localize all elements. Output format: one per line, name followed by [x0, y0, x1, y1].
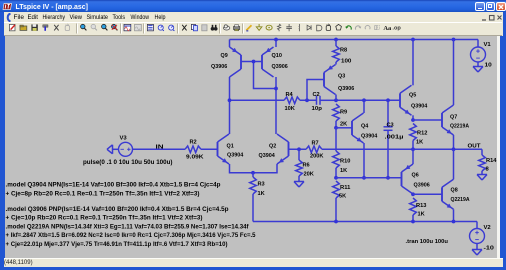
svg-text:R14: R14	[486, 158, 497, 164]
svg-text:10p: 10p	[312, 106, 323, 112]
svg-text:R12: R12	[417, 131, 427, 137]
svg-text:Q3906: Q3906	[211, 64, 228, 70]
svg-text:1K: 1K	[416, 140, 424, 146]
svg-text:Q8: Q8	[451, 188, 459, 194]
svg-text:Q5: Q5	[409, 93, 417, 99]
svg-text:R13: R13	[416, 203, 427, 209]
svg-text:pulse(0 .1 0 10u 10u 50u 100u): pulse(0 .1 0 10u 10u 50u 100u)	[83, 159, 173, 166]
svg-text:+ Cje=10p Rb=20 Rc=0.1 Re=0.1: + Cje=10p Rb=20 Rc=0.1 Re=0.1 Tr=250n Tf…	[6, 216, 203, 222]
svg-text:20K: 20K	[304, 172, 315, 178]
svg-text:Q3904: Q3904	[411, 104, 428, 110]
svg-text:.tran 100u 100u: .tran 100u 100u	[406, 239, 449, 245]
svg-text:Q6: Q6	[412, 173, 420, 179]
svg-text:Q3906: Q3906	[272, 64, 289, 70]
svg-text:R3: R3	[258, 182, 266, 188]
svg-text:V3: V3	[120, 136, 128, 142]
svg-text:.model Q3906 PNP(Is=1E-14 Vaf=: .model Q3906 PNP(Is=1E-14 Vaf=100 Bf=200…	[6, 207, 229, 213]
svg-text:Q3: Q3	[338, 74, 346, 80]
svg-text:+ Ikf=.2847 Xtb=1.5 Br=6.092 N: + Ikf=.2847 Xtb=1.5 Br=6.092 Nc=2 Isc=0 …	[6, 233, 257, 239]
svg-text:C3: C3	[387, 123, 395, 129]
svg-text:200K: 200K	[310, 154, 324, 160]
svg-text:Q10: Q10	[272, 53, 282, 59]
svg-text:R4: R4	[286, 92, 294, 98]
svg-text:100: 100	[341, 59, 351, 65]
svg-text:Q4: Q4	[361, 124, 369, 130]
svg-text:Q3906: Q3906	[338, 86, 355, 92]
svg-text:Q7: Q7	[450, 115, 457, 121]
svg-text:V2: V2	[484, 225, 491, 231]
svg-text:+ Cje=8p Rb=20 Rc=0.1 Re=0.1 T: + Cje=8p Rb=20 Rc=0.1 Re=0.1 Tr=250n Tf=…	[6, 192, 200, 198]
svg-text:C2: C2	[313, 92, 320, 98]
svg-text:R7: R7	[312, 141, 319, 147]
svg-text:1K: 1K	[418, 212, 426, 218]
svg-text:Q2219A: Q2219A	[451, 197, 471, 203]
svg-text:R10: R10	[340, 159, 350, 165]
svg-text:Q3904: Q3904	[227, 153, 244, 159]
svg-text:8: 8	[486, 167, 490, 173]
svg-text:1K: 1K	[258, 191, 266, 197]
svg-text:1K: 1K	[340, 168, 348, 174]
svg-text:R6: R6	[303, 163, 311, 169]
svg-text:R8: R8	[340, 48, 348, 54]
svg-text:Q3906: Q3906	[414, 183, 431, 189]
svg-text:.model Q2219A NPN(Is=14.34f Xt: .model Q2219A NPN(Is=14.34f Xti=3 Eg=1.1…	[6, 225, 250, 231]
svg-text:5K: 5K	[339, 194, 347, 200]
svg-text:+ Cje=22.01p Mje=.377 Vje=.75: + Cje=22.01p Mje=.377 Vje=.75 Tr=46.91n …	[6, 242, 228, 248]
svg-text:IN: IN	[156, 145, 164, 151]
svg-text:R11: R11	[340, 185, 351, 191]
svg-text:-10: -10	[484, 246, 494, 252]
svg-text:2K: 2K	[340, 122, 348, 128]
svg-text:R9: R9	[340, 110, 348, 116]
svg-text:Q2219A: Q2219A	[450, 124, 470, 130]
svg-text:Q9: Q9	[221, 53, 229, 59]
svg-text:9.09K: 9.09K	[186, 155, 204, 161]
svg-text:V1: V1	[484, 42, 492, 48]
svg-text:Q2: Q2	[269, 143, 276, 149]
svg-text:10: 10	[485, 63, 492, 69]
svg-text:Q1: Q1	[227, 143, 235, 149]
svg-text:.001µ: .001µ	[385, 135, 404, 141]
svg-text:10K: 10K	[285, 106, 296, 112]
svg-text:.model Q3904 NPN(Is=1E-14 Vaf=: .model Q3904 NPN(Is=1E-14 Vaf=100 Bf=300…	[6, 183, 221, 189]
svg-text:Q3904: Q3904	[361, 134, 378, 140]
svg-text:OUT: OUT	[468, 144, 481, 150]
svg-text:Q3904: Q3904	[259, 153, 276, 159]
svg-text:R2: R2	[190, 140, 197, 146]
